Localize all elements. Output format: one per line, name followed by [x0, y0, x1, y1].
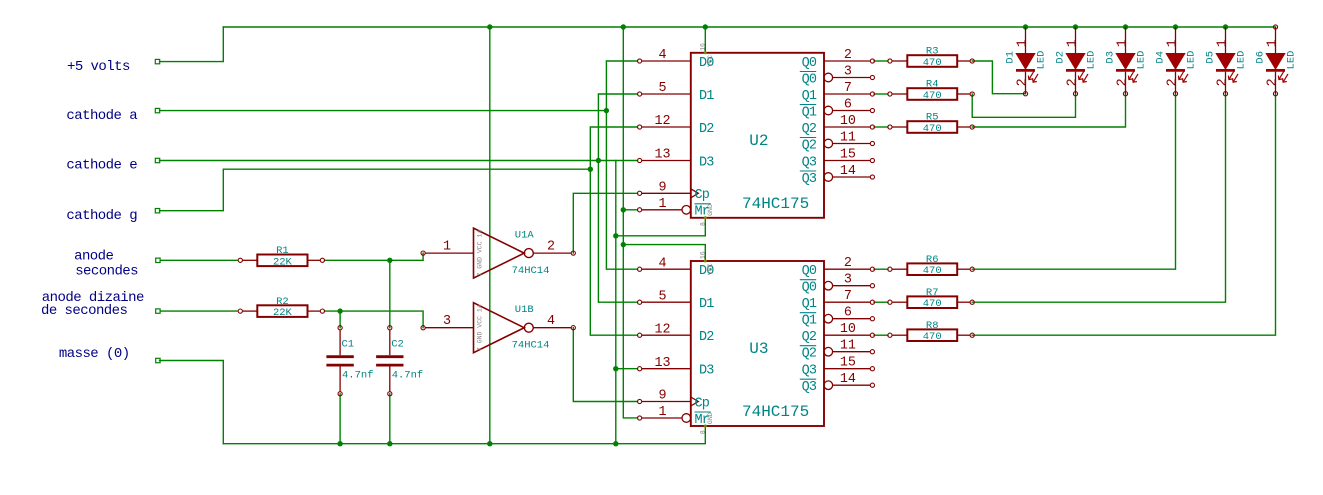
- wire U2 VCC vertical: [704, 27, 706, 53]
- svg-text:Q1: Q1: [802, 105, 817, 120]
- svg-text:D6: D6: [1255, 51, 1267, 64]
- svg-text:R7: R7: [926, 287, 939, 299]
- svg-text:5: 5: [658, 289, 666, 304]
- resistor R5 470: [888, 112, 975, 135]
- wire bottom ground rail: [223, 426, 705, 444]
- wire R2 output to U1B input: [325, 311, 424, 328]
- junction cathode e / net D1: [596, 158, 601, 163]
- junction cathode g / net D2: [588, 167, 593, 172]
- svg-text:1: 1: [658, 405, 666, 420]
- svg-text:2: 2: [1066, 78, 1081, 86]
- svg-text:D2: D2: [699, 122, 714, 137]
- junction top rail / U1 power: [487, 24, 492, 29]
- wire R8 to D6 cathode: [972, 94, 1275, 336]
- LED D4: [1155, 27, 1198, 96]
- svg-text:16: 16: [699, 43, 706, 51]
- svg-text:cathode a: cathode a: [66, 108, 137, 124]
- junction rail / U1 gnd: [487, 441, 492, 446]
- wire cathode e to U2 pin13: [160, 160, 638, 162]
- svg-text:470: 470: [923, 57, 942, 69]
- capacitor C2: [376, 326, 423, 396]
- svg-text:9: 9: [658, 181, 666, 196]
- wire U3 Q1 to R7: [874, 301, 888, 303]
- LED D2: [1055, 27, 1098, 96]
- svg-text:R6: R6: [926, 254, 939, 266]
- svg-text:470: 470: [923, 331, 942, 343]
- wire U3 Q2 to R8: [874, 334, 888, 336]
- svg-text:74HC175: 74HC175: [742, 403, 809, 421]
- svg-text:2: 2: [844, 48, 852, 63]
- junction U3 D3: [613, 366, 618, 371]
- svg-text:Q2: Q2: [802, 347, 817, 362]
- wire net cathode-e/ground vertical: [615, 161, 617, 444]
- resistor R3 470: [888, 46, 975, 69]
- svg-text:74HC14: 74HC14: [512, 340, 550, 352]
- svg-text:74HC175: 74HC175: [742, 195, 809, 213]
- wire net D0 vertical: [606, 61, 637, 269]
- svg-text:15: 15: [840, 147, 856, 162]
- svg-text:11: 11: [840, 130, 856, 145]
- svg-text:10: 10: [840, 322, 856, 337]
- svg-text:anode: anode: [74, 248, 113, 264]
- junction Mr net / U2 Mr: [621, 207, 626, 212]
- svg-text:Q1: Q1: [802, 314, 817, 329]
- junction rail / vertical g: [613, 441, 618, 446]
- wire U2 Q2 to R5: [874, 126, 888, 128]
- svg-text:C2: C2: [391, 339, 404, 351]
- wire U1A output to U2 Cp: [573, 193, 637, 253]
- svg-text:LED: LED: [1285, 51, 1297, 70]
- svg-text:15: 15: [840, 356, 856, 371]
- svg-text:7 GND VCC 14: 7 GND VCC 14: [477, 304, 484, 351]
- svg-text:D2: D2: [699, 330, 714, 345]
- svg-text:U1A: U1A: [515, 230, 535, 242]
- svg-text:D3: D3: [699, 155, 714, 170]
- svg-text:11: 11: [840, 339, 856, 354]
- wire U1 power vertical: [489, 27, 491, 444]
- svg-text:D4: D4: [1155, 51, 1167, 64]
- svg-text:470: 470: [923, 265, 942, 277]
- wire R6 to D4 cathode: [972, 94, 1175, 270]
- wire cathode g: [160, 169, 591, 211]
- svg-text:1: 1: [1216, 39, 1231, 47]
- svg-text:2: 2: [547, 240, 555, 255]
- svg-text:2: 2: [1216, 78, 1231, 86]
- capacitor C1: [326, 326, 373, 396]
- svg-text:8: 8: [699, 430, 706, 434]
- svg-text:D1: D1: [699, 297, 714, 312]
- junction top rail / U2 VCC: [703, 24, 708, 29]
- svg-text:16: 16: [699, 251, 706, 259]
- wire U3 VCC horizontal: [623, 245, 705, 261]
- LED D5: [1205, 27, 1248, 96]
- svg-text:Q3: Q3: [802, 155, 817, 170]
- svg-text:LED: LED: [1035, 51, 1047, 70]
- svg-text:1: 1: [1066, 39, 1081, 47]
- wire R7 to D5 cathode: [972, 94, 1225, 303]
- wire anode secondes to R1: [160, 259, 239, 261]
- junction top rail / D3: [1123, 24, 1128, 29]
- resistor R2: [238, 296, 324, 319]
- resistor R6 470: [888, 254, 975, 277]
- LED D6: [1255, 25, 1298, 96]
- junction top rail / D1: [1023, 24, 1028, 29]
- junction U2 GND / vertical: [613, 233, 618, 238]
- svg-text:Q0: Q0: [802, 72, 817, 87]
- svg-text:R8: R8: [926, 320, 939, 332]
- svg-text:D1: D1: [1005, 51, 1017, 64]
- svg-text:D2: D2: [1055, 51, 1067, 64]
- svg-text:Cp: Cp: [695, 396, 710, 411]
- svg-text:4: 4: [658, 256, 666, 271]
- wire Mr net vertical: [623, 27, 637, 418]
- wire U3 Q0 to R6: [874, 268, 888, 270]
- svg-text:2: 2: [1016, 78, 1031, 86]
- svg-text:1: 1: [1266, 39, 1281, 47]
- svg-text:U1B: U1B: [515, 304, 534, 316]
- svg-text:3: 3: [844, 273, 852, 288]
- wire U2 Mr stub: [623, 209, 637, 211]
- svg-text:2: 2: [1266, 78, 1281, 86]
- wire R3 to D1 cathode: [972, 61, 1025, 94]
- wire U1B output to U3 Cp: [573, 328, 637, 402]
- junction rail / C1: [337, 441, 342, 446]
- svg-text:Q2: Q2: [802, 138, 817, 153]
- svg-text:4: 4: [658, 48, 666, 63]
- node anode dizaine end: [156, 309, 160, 313]
- junction top rail / D5: [1223, 24, 1228, 29]
- svg-text:13: 13: [654, 356, 670, 371]
- svg-text:5: 5: [658, 81, 666, 96]
- svg-text:Q3: Q3: [802, 364, 817, 379]
- node masse end: [156, 358, 160, 362]
- svg-text:LED: LED: [1235, 51, 1247, 70]
- junction rail / C2: [387, 441, 392, 446]
- svg-text:LED: LED: [1085, 51, 1097, 70]
- IC U3 74HC175: [638, 251, 875, 434]
- wire R5 to D3 cathode: [972, 94, 1125, 127]
- resistor R4 470: [888, 79, 975, 102]
- svg-text:2: 2: [844, 256, 852, 271]
- node +5 volts end: [155, 59, 159, 63]
- svg-text:2: 2: [1166, 78, 1181, 86]
- svg-text:22K: 22K: [273, 307, 293, 319]
- wire U3 D3 stub: [616, 368, 638, 370]
- svg-text:VCC: VCC: [707, 263, 714, 275]
- junction cathode a / net D0: [604, 108, 609, 113]
- node cathode a end: [155, 108, 159, 112]
- wire U2 GND horizontal: [616, 218, 706, 236]
- wire R4 to D2 cathode: [972, 94, 1075, 118]
- junction top rail / D4: [1173, 24, 1178, 29]
- svg-text:3: 3: [443, 314, 451, 329]
- svg-text:Q0: Q0: [802, 281, 817, 296]
- svg-text:470: 470: [923, 123, 942, 135]
- svg-text:4.7nf: 4.7nf: [342, 370, 374, 382]
- svg-text:8: 8: [699, 222, 706, 226]
- svg-text:Q1: Q1: [802, 297, 817, 312]
- svg-text:R1: R1: [276, 245, 289, 257]
- svg-text:Q0: Q0: [802, 264, 817, 279]
- svg-text:R3: R3: [926, 46, 939, 58]
- node anode secondes end: [156, 258, 160, 262]
- svg-text:LED: LED: [1185, 51, 1197, 70]
- svg-text:1: 1: [1166, 39, 1181, 47]
- wire C2 top connection: [389, 260, 391, 327]
- svg-text:Q2: Q2: [802, 330, 817, 345]
- svg-text:4: 4: [547, 314, 555, 329]
- svg-text:R4: R4: [926, 79, 939, 91]
- svg-text:1: 1: [658, 197, 666, 212]
- svg-text:Q2: Q2: [802, 122, 817, 137]
- svg-text:7 GND VCC 14: 7 GND VCC 14: [477, 230, 484, 277]
- wire R1 output to U1A input: [325, 253, 424, 260]
- svg-text:R2: R2: [276, 296, 289, 308]
- svg-text:470: 470: [923, 90, 942, 102]
- wire C1 top connection: [339, 311, 341, 328]
- wire net D2 vertical: [590, 127, 637, 335]
- svg-text:7: 7: [844, 81, 852, 96]
- svg-text:Cp: Cp: [695, 188, 710, 203]
- svg-text:22K: 22K: [273, 256, 293, 268]
- svg-text:14: 14: [840, 372, 856, 387]
- svg-text:Q1: Q1: [802, 89, 817, 104]
- svg-text:13: 13: [654, 148, 670, 163]
- LED D3: [1105, 27, 1148, 96]
- svg-text:LED: LED: [1135, 51, 1147, 70]
- wire +5 volts label to rail: [160, 27, 224, 62]
- junction U3 VCC / Mr net: [621, 242, 626, 247]
- svg-text:7: 7: [844, 289, 852, 304]
- op-amp U1A inverter: [421, 228, 575, 278]
- wire U2 Q1 to R4: [874, 93, 888, 95]
- svg-text:VCC: VCC: [707, 55, 714, 67]
- svg-text:cathode g: cathode g: [66, 208, 137, 224]
- svg-text:Q3: Q3: [802, 172, 817, 187]
- svg-text:1: 1: [1016, 39, 1031, 47]
- resistor R7 470: [888, 287, 975, 310]
- svg-text:Q3: Q3: [802, 380, 817, 395]
- svg-text:C1: C1: [342, 339, 355, 351]
- svg-text:D1: D1: [699, 89, 714, 104]
- svg-text:14: 14: [840, 164, 856, 179]
- svg-text:2: 2: [1116, 78, 1131, 86]
- junction top rail / D2: [1073, 24, 1078, 29]
- wire cathode a: [160, 110, 607, 112]
- wire net D1 vertical: [598, 94, 637, 302]
- svg-text:U3: U3: [749, 340, 768, 358]
- junction R1 row / C2: [387, 258, 392, 263]
- op-amp U1B inverter: [421, 303, 575, 353]
- junction R2 row / C1: [337, 308, 342, 313]
- svg-text:GND: GND: [707, 412, 714, 424]
- wire masse to bottom rail: [160, 361, 224, 444]
- svg-text:GND: GND: [707, 204, 714, 216]
- svg-text:D3: D3: [1105, 51, 1117, 64]
- svg-text:secondes: secondes: [75, 264, 138, 280]
- svg-text:1: 1: [443, 240, 451, 255]
- svg-text:U2: U2: [749, 132, 768, 150]
- svg-text:cathode e: cathode e: [66, 158, 137, 174]
- resistor R8 470: [888, 320, 975, 343]
- svg-text:3: 3: [844, 64, 852, 79]
- IC U2 74HC175: [638, 43, 875, 226]
- wire C1 bottom to rail: [339, 394, 341, 444]
- svg-text:6: 6: [844, 97, 852, 112]
- resistor R1: [238, 245, 324, 268]
- node cathode e end: [155, 158, 159, 162]
- svg-text:D3: D3: [699, 364, 714, 379]
- svg-text:Q0: Q0: [802, 56, 817, 71]
- wire +5V top rail: [223, 26, 1275, 28]
- svg-text:74HC14: 74HC14: [512, 265, 550, 277]
- DANGLING ENDS: [155, 59, 160, 362]
- svg-text:D5: D5: [1205, 51, 1217, 64]
- svg-text:R5: R5: [926, 112, 939, 124]
- svg-text:4.7nf: 4.7nf: [392, 370, 424, 382]
- svg-text:+5 volts: +5 volts: [67, 59, 130, 75]
- svg-text:1: 1: [1116, 39, 1131, 47]
- junction top rail / Mr net: [621, 24, 626, 29]
- svg-text:9: 9: [658, 389, 666, 404]
- wire anode dizaine to R2: [160, 310, 239, 312]
- svg-text:10: 10: [840, 114, 856, 129]
- BLUE TEXT LABELS: [41, 59, 144, 362]
- svg-text:6: 6: [844, 306, 852, 321]
- svg-text:de secondes: de secondes: [41, 303, 128, 319]
- svg-text:470: 470: [923, 298, 942, 310]
- svg-text:12: 12: [654, 322, 670, 337]
- wire U2 Q0 to R3: [874, 60, 888, 62]
- LED D1: [1005, 27, 1048, 96]
- wire C2 bottom to rail: [389, 394, 391, 444]
- node cathode g end: [155, 209, 159, 213]
- svg-text:masse (0): masse (0): [59, 346, 130, 362]
- svg-text:12: 12: [654, 114, 670, 129]
